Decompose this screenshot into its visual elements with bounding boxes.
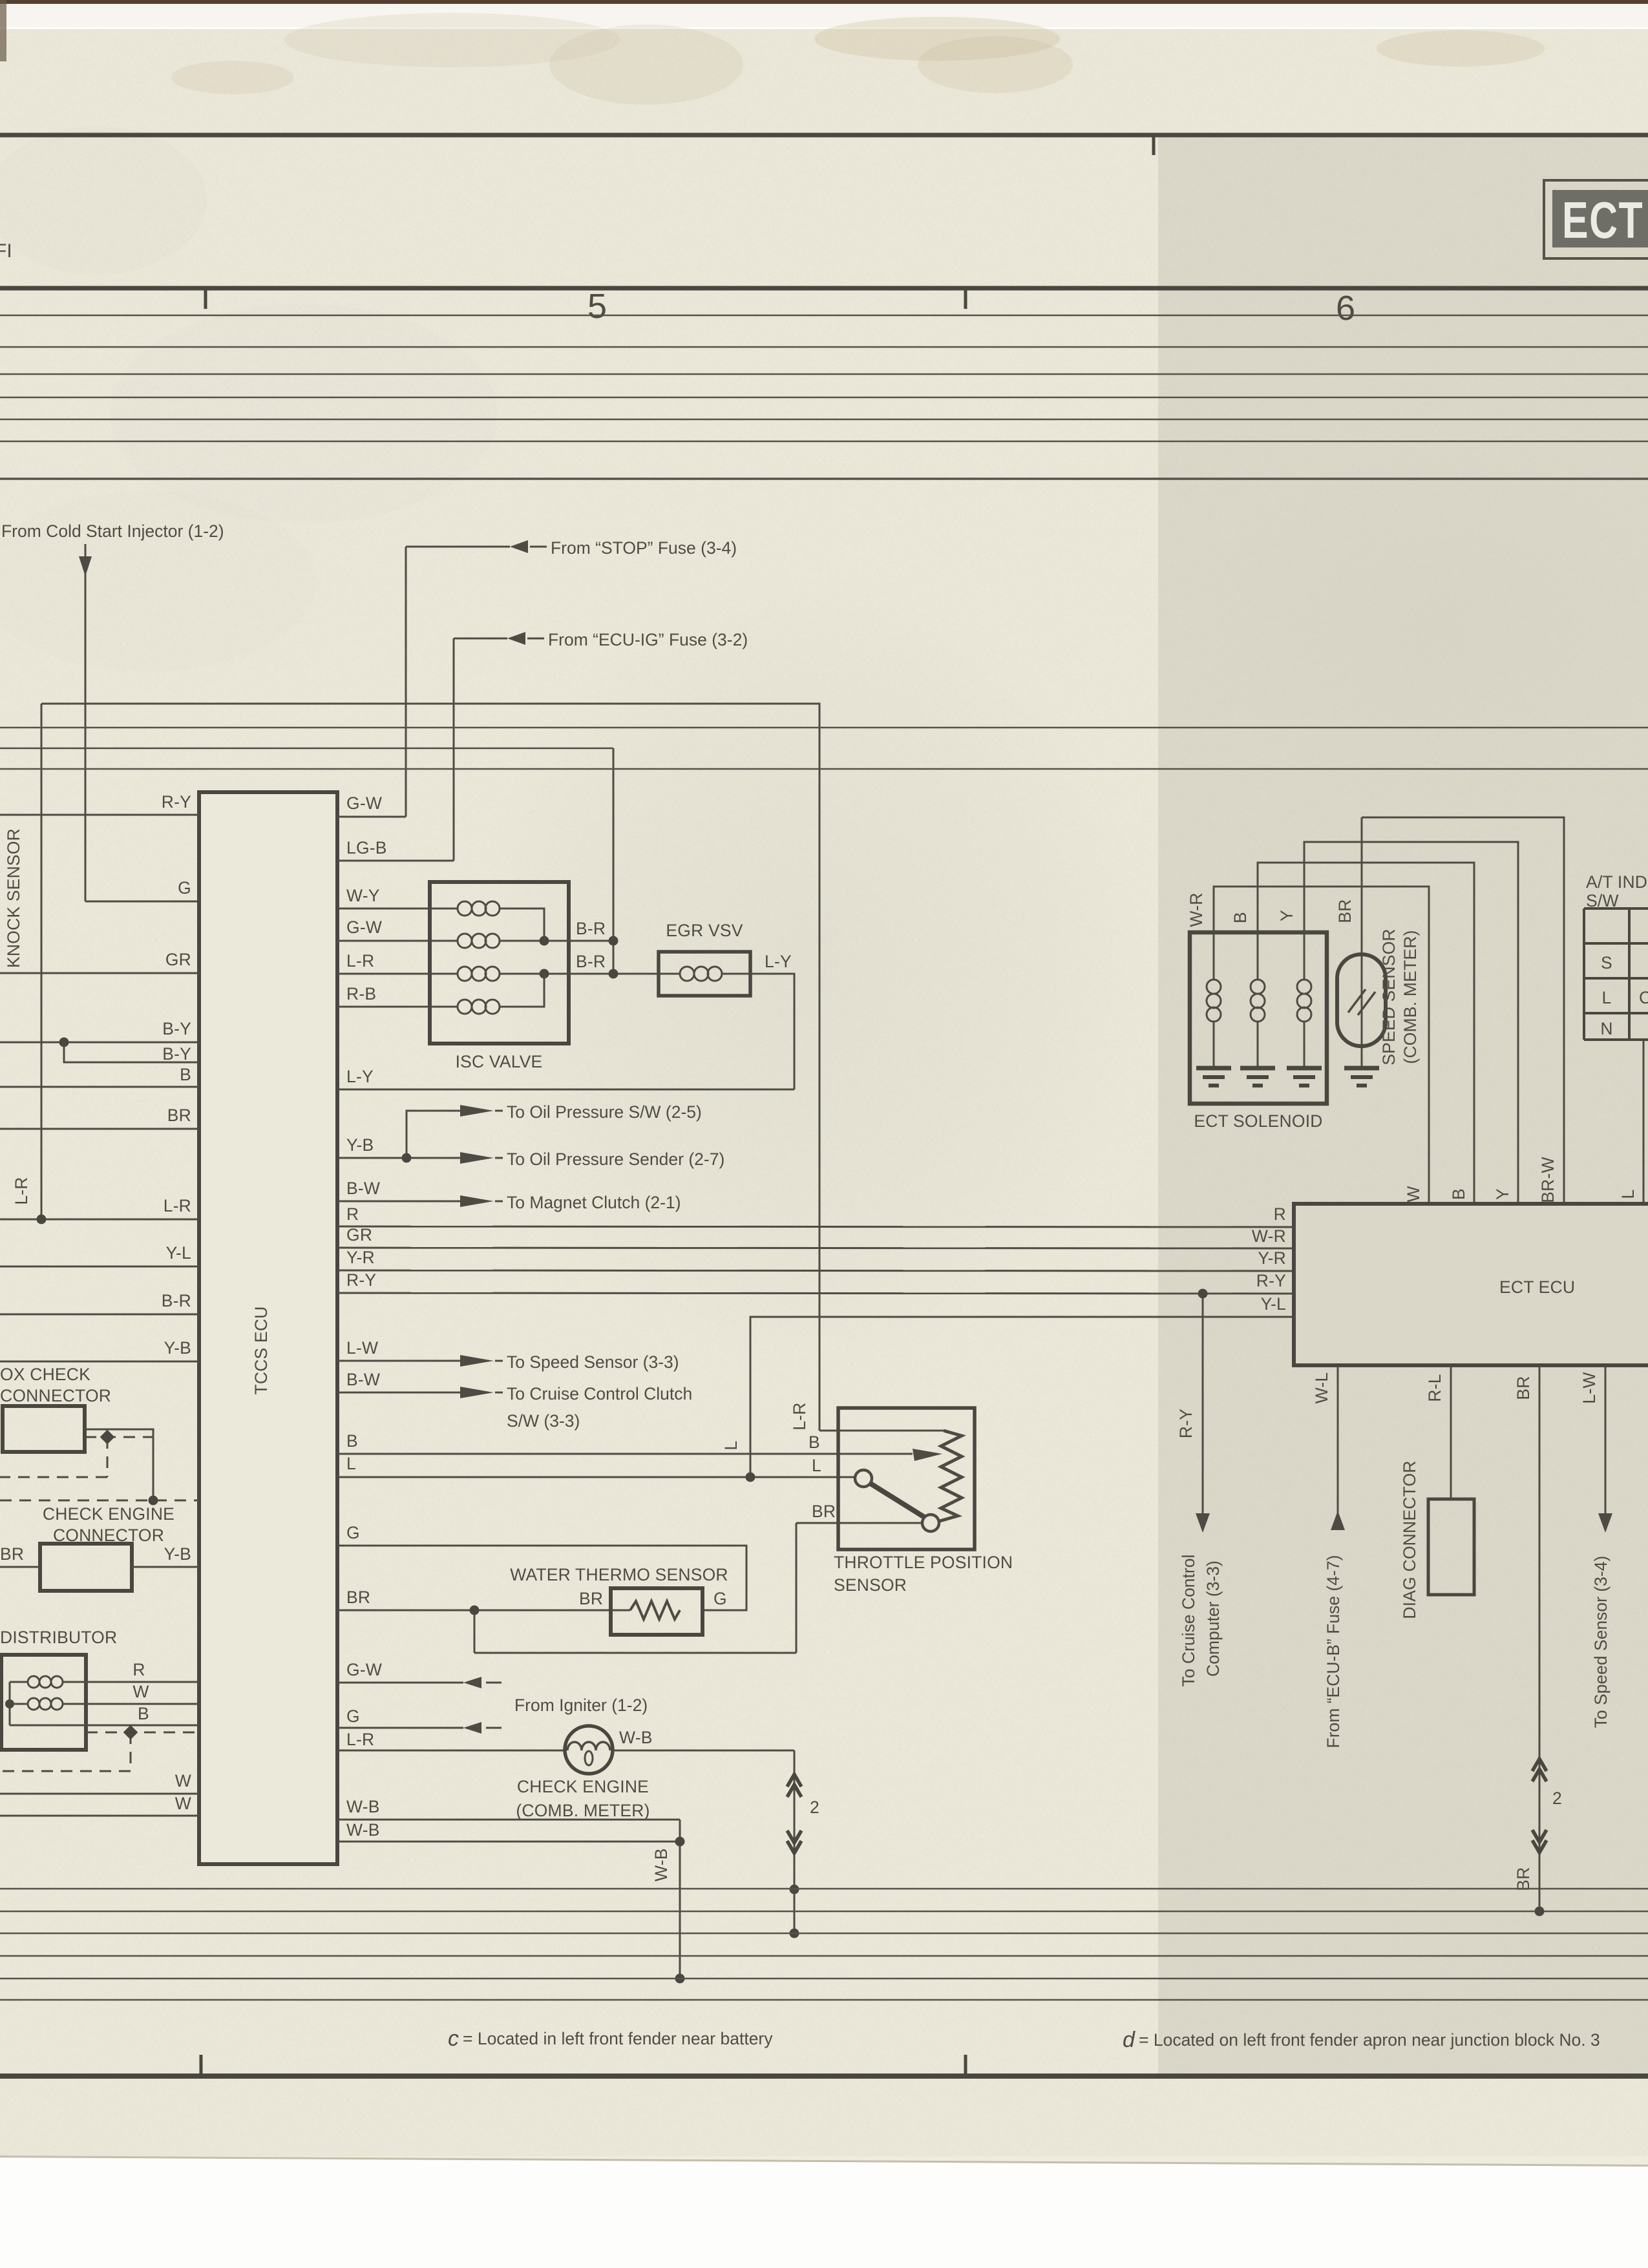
svg-text:C: C — [1639, 988, 1648, 1007]
svg-text:B: B — [808, 1433, 820, 1452]
junction: lamp wire to bus — [790, 1885, 799, 1938]
coil: ISC 1 — [458, 901, 544, 941]
svg-text:W-B: W-B — [619, 1728, 653, 1747]
wire: A/T switch L lead to ECT ECU — [1618, 1040, 1643, 1204]
junction: B-Y tap — [59, 1038, 69, 1047]
svg-text:B-R: B-R — [162, 1291, 191, 1310]
svg-text:TCCS ECU: TCCS ECU — [251, 1306, 271, 1394]
connector: OX CHECK CONNECTOR — [0, 1365, 153, 1500]
label B-R pair — [576, 919, 606, 971]
wire: pin G to water thermo sensor — [337, 1523, 746, 1610]
frame: bottom rule with ticks — [0, 2055, 1648, 2076]
svg-text:ECT: ECT — [1562, 192, 1643, 249]
wire: pin B-W To Cruise Control Clutch S/W (3-3) — [337, 1370, 692, 1431]
svg-text:LG-B: LG-B — [346, 838, 387, 857]
connector: CHECK ENGINE CONNECTOR — [0, 1504, 199, 1591]
svg-text:L-Y: L-Y — [346, 1067, 374, 1086]
wire: pin L-R left — [0, 1177, 199, 1219]
svg-text:L-W: L-W — [346, 1338, 378, 1358]
svg-text:W-L: W-L — [1312, 1372, 1331, 1404]
wire: bus Y-L to ECT ECU — [721, 1294, 1294, 1477]
svg-text:B-Y: B-Y — [162, 1019, 191, 1038]
wire: pin B-W To Magnet Clutch (2-1) — [337, 1179, 681, 1212]
lamp: CHECK ENGINE (COMB. METER) — [516, 1726, 652, 1820]
wire: pin Y-B To Oil Pressure Sender (2-7) — [337, 1135, 724, 1169]
svg-text:FI: FI — [0, 240, 12, 262]
component: SPEED SENSOR (COMB. METER) — [1335, 817, 1564, 1204]
svg-text:B-Y: B-Y — [162, 1044, 191, 1064]
frame: column rule with ticks — [0, 287, 1648, 328]
svg-text:Y-L: Y-L — [1261, 1294, 1286, 1314]
svg-text:BR: BR — [1514, 1867, 1533, 1891]
wire: pin W 1 left — [0, 1771, 199, 1794]
svg-text:B: B — [1231, 912, 1250, 923]
svg-text:L: L — [1602, 988, 1612, 1007]
ground: solenoid 2 — [1240, 1068, 1275, 1086]
svg-text:Y-R: Y-R — [1258, 1248, 1286, 1268]
coil: distributor pickup 2 — [10, 1698, 199, 1710]
svg-text:SPEED SENSOR: SPEED SENSOR — [1379, 929, 1399, 1066]
svg-text:L: L — [721, 1441, 741, 1451]
svg-text:CONNECTOR: CONNECTOR — [0, 1386, 111, 1405]
caption d — [1123, 2028, 1600, 2052]
svg-text:L-R: L-R — [12, 1177, 31, 1204]
component: ISC VALVE box — [430, 882, 569, 1071]
svg-text:W-B: W-B — [651, 1848, 671, 1882]
wire: branch To Oil Pressure S/W (2-5) — [407, 1102, 702, 1158]
wire: pin L-R to ISC coil 3 — [337, 951, 458, 974]
node: From "STOP" Fuse (3-4) feed — [406, 538, 737, 817]
switch: throttle idle contact — [855, 1470, 939, 1531]
wire: bus GR / W-R to ECT ECU — [337, 1225, 1294, 1248]
svg-text:= Located in left front fender: = Located in left front fender near batt… — [463, 2029, 773, 2048]
pin labels R W B distributor — [132, 1660, 149, 1723]
caption c — [448, 2026, 773, 2051]
junction: L-R / loop bus — [37, 1215, 47, 1224]
node: From Cold Start Injector (1-2) feed — [1, 521, 224, 901]
component: THROTTLE POSITION SENSOR — [790, 1402, 1013, 1595]
svg-text:B-R: B-R — [576, 919, 606, 938]
wire: pin L-W To Speed Sensor (3-3) — [337, 1338, 679, 1372]
wire: long bus line 4 — [0, 768, 1648, 770]
svg-text:BR: BR — [167, 1106, 191, 1125]
junction: ISC coils 3+4 — [540, 969, 618, 979]
svg-text:R: R — [1274, 1204, 1286, 1224]
coil: EGR VSV winding — [680, 967, 750, 981]
wire: pin G from igniter — [337, 1696, 648, 1734]
svg-text:ISC VALVE: ISC VALVE — [456, 1052, 543, 1071]
wire: bottom horizontal bus group — [0, 1889, 1648, 2000]
wire: pin W-B 1 — [337, 1797, 680, 1820]
switch: A/T IND S/W table — [1584, 872, 1648, 1040]
frame: FI margin text — [0, 240, 12, 262]
svg-text:Y-R: Y-R — [346, 1248, 375, 1267]
svg-text:W-B: W-B — [346, 1820, 380, 1840]
svg-text:EGR VSV: EGR VSV — [666, 921, 743, 940]
wire: pin BR to water thermo sensor — [337, 1588, 630, 1615]
wire: pin B-Y 1 left — [0, 1019, 199, 1042]
wire: pin L to throttle idle contact — [337, 1454, 854, 1482]
wire: pin W-Y to ISC coil 1 — [337, 886, 458, 908]
wire: pin R-Y left — [0, 792, 199, 815]
svg-text:B: B — [1449, 1188, 1468, 1200]
svg-text:R-L: R-L — [1425, 1374, 1444, 1402]
wire: distributor common leg — [5, 1682, 199, 1725]
wire: pin G-W to ISC coil 2 — [337, 918, 458, 941]
wire: bus line 3 to ISC B-R drop — [0, 748, 613, 974]
svg-text:From “STOP” Fuse (3-4): From “STOP” Fuse (3-4) — [551, 538, 737, 558]
wire: distributor shield dashed — [0, 1725, 199, 1771]
svg-text:R-Y: R-Y — [346, 1270, 376, 1290]
svg-text:W: W — [132, 1682, 149, 1701]
svg-text:S/W (3-3): S/W (3-3) — [507, 1411, 580, 1431]
svg-text:WATER THERMO SENSOR: WATER THERMO SENSOR — [510, 1565, 728, 1584]
wire: pin B to throttle wiper — [337, 1431, 942, 1461]
svg-text:2: 2 — [1552, 1789, 1562, 1808]
svg-text:To Speed Sensor (3-3): To Speed Sensor (3-3) — [507, 1352, 679, 1372]
coil: ISC 3 feeds EGR VSV — [458, 967, 680, 981]
component: EGR VSV — [659, 921, 750, 996]
coil: ISC 2 — [458, 934, 613, 948]
svg-text:c: c — [448, 2026, 459, 2051]
svg-text:N: N — [1600, 1019, 1612, 1038]
svg-text:R: R — [132, 1660, 145, 1679]
coil: ECT solenoid 3 Y — [1277, 842, 1518, 1204]
wire: pin W 2 left — [0, 1794, 199, 1816]
wire: pin B-Y 2 left — [64, 1042, 199, 1064]
wire: pin L-R to check engine lamp — [337, 1730, 565, 1750]
svg-text:SENSOR: SENSOR — [834, 1575, 907, 1595]
wire: pin G-W to STOP fuse — [337, 793, 406, 817]
wire: L-R into pot top — [819, 1430, 944, 1432]
knock sensor label — [4, 828, 23, 968]
frame: top rule — [0, 135, 1648, 155]
svg-text:W: W — [175, 1771, 191, 1790]
wire: W-B drop to bottom bus — [675, 1820, 685, 1984]
component: ECT SOLENOID box — [1190, 932, 1327, 1131]
svg-text:L-R: L-R — [164, 1196, 191, 1215]
svg-text:CHECK ENGINE: CHECK ENGINE — [43, 1504, 174, 1524]
svg-text:From Igniter (1-2): From Igniter (1-2) — [514, 1696, 648, 1715]
wire: pin BR left — [0, 1106, 199, 1129]
svg-text:R-Y: R-Y — [1176, 1409, 1196, 1438]
component: WATER THERMO SENSOR — [510, 1565, 728, 1635]
wire: lamp W-B drop with inline connector 2 — [613, 1750, 819, 1933]
svg-text:BR: BR — [0, 1544, 24, 1564]
svg-text:From “ECU-IG” Fuse (3-2): From “ECU-IG” Fuse (3-2) — [548, 630, 748, 649]
wire: long bus line 2 — [0, 727, 1648, 729]
svg-text:To Oil Pressure Sender (2-7): To Oil Pressure Sender (2-7) — [507, 1150, 724, 1169]
svg-text:CHECK ENGINE: CHECK ENGINE — [517, 1777, 649, 1796]
component: DISTRIBUTOR — [0, 1628, 117, 1750]
svg-text:BR: BR — [1335, 899, 1355, 923]
svg-text:A/T IND: A/T IND — [1586, 872, 1647, 892]
svg-text:Y: Y — [1493, 1188, 1512, 1200]
svg-text:W-B: W-B — [346, 1797, 380, 1816]
wire: pin B-R left — [0, 1291, 199, 1314]
resistor: throttle potentiometer — [940, 1431, 962, 1521]
svg-text:To Cruise Control: To Cruise Control — [1179, 1555, 1198, 1687]
svg-text:5: 5 — [587, 287, 607, 326]
svg-text:From “ECU-B” Fuse (4-7): From “ECU-B” Fuse (4-7) — [1324, 1555, 1343, 1748]
svg-text:THROTTLE POSITION: THROTTLE POSITION — [834, 1553, 1013, 1572]
ground: solenoid 3 — [1287, 1068, 1322, 1086]
wire: pin GR left — [0, 950, 199, 973]
resistor: water thermo element — [630, 1601, 680, 1619]
wire: bus Y-R to ECT ECU — [337, 1248, 1294, 1271]
svg-text:L-W: L-W — [1579, 1372, 1599, 1403]
wire: pin B left — [0, 1065, 199, 1087]
svg-text:W-R: W-R — [1252, 1226, 1286, 1246]
junction: ISC coils 1+2 — [540, 936, 618, 946]
wire: R-Y drop To Cruise Control Computer (3-3) — [1176, 1289, 1223, 1687]
wire: pin L-Y — [337, 1067, 794, 1089]
svg-text:B-R: B-R — [576, 952, 606, 971]
svg-text:B: B — [180, 1065, 191, 1084]
svg-text:= Located on left front fender: = Located on left front fender apron nea… — [1139, 2030, 1600, 2050]
svg-text:To Magnet Clutch (2-1): To Magnet Clutch (2-1) — [507, 1193, 681, 1212]
svg-text:KNOCK SENSOR: KNOCK SENSOR — [4, 828, 23, 968]
wire: L-R loop bus to throttle sensor — [41, 704, 819, 1431]
wire: EGR VSV L-Y drop — [750, 952, 794, 1089]
coil: ECT solenoid 2 B — [1231, 863, 1474, 1204]
connector: DIAG CONNECTOR — [1400, 1365, 1474, 1619]
svg-text:d: d — [1123, 2028, 1136, 2052]
svg-text:Y-B: Y-B — [346, 1135, 374, 1155]
ground: speed sensor — [1344, 1068, 1379, 1086]
svg-text:Y-B: Y-B — [164, 1544, 191, 1564]
svg-text:BR: BR — [1514, 1376, 1533, 1400]
wire: pin LG-B to ECU-IG fuse — [337, 838, 454, 861]
svg-text:Y: Y — [1277, 910, 1296, 921]
svg-text:6: 6 — [1336, 289, 1355, 328]
svg-text:B-W: B-W — [346, 1370, 380, 1389]
wire: dashed link to TCCS ECU — [0, 1496, 199, 1506]
svg-text:W-R: W-R — [1187, 892, 1206, 927]
ground: solenoid 1 — [1196, 1068, 1231, 1086]
svg-text:G-W: G-W — [346, 918, 382, 937]
wire: top horizontal bus group — [0, 315, 1648, 479]
svg-text:B: B — [138, 1704, 149, 1723]
svg-text:(COMB. METER): (COMB. METER) — [1400, 930, 1420, 1064]
wire: pin G-W from igniter side — [337, 1660, 502, 1688]
TCCS ECU U1 — [199, 792, 337, 1864]
svg-text:BR: BR — [346, 1588, 370, 1607]
svg-text:To Cruise Control Clutch: To Cruise Control Clutch — [507, 1384, 692, 1403]
svg-text:G-W: G-W — [346, 1660, 382, 1679]
wire: pin BR to throttle via thermo loop — [474, 1502, 922, 1653]
wire: pin Y-L left — [0, 1243, 199, 1266]
svg-text:ECT SOLENOID: ECT SOLENOID — [1194, 1111, 1322, 1131]
svg-text:W: W — [175, 1794, 191, 1813]
svg-text:L-R: L-R — [790, 1402, 809, 1430]
svg-text:R: R — [346, 1204, 359, 1224]
wire: pin Y-B left — [0, 1338, 199, 1361]
svg-text:R-Y: R-Y — [1256, 1271, 1286, 1290]
svg-text:G: G — [346, 1706, 360, 1726]
svg-text:R-B: R-B — [346, 984, 376, 1003]
svg-text:DIAG CONNECTOR: DIAG CONNECTOR — [1400, 1460, 1419, 1619]
svg-text:L: L — [1618, 1190, 1638, 1199]
wire: bus R to ECT ECU — [337, 1204, 1294, 1227]
svg-text:Y-L: Y-L — [166, 1243, 191, 1263]
wire: pin R-B to ISC coil 4 — [337, 984, 458, 1007]
wire: bus R-Y to ECT ECU — [337, 1270, 1294, 1294]
svg-text:R-Y: R-Y — [162, 792, 191, 812]
svg-text:S: S — [1601, 953, 1612, 972]
svg-text:L-Y: L-Y — [765, 952, 792, 971]
svg-text:B: B — [346, 1431, 358, 1451]
svg-text:DISTRIBUTOR: DISTRIBUTOR — [0, 1628, 117, 1647]
svg-text:From Cold Start Injector (1-2): From Cold Start Injector (1-2) — [1, 521, 224, 541]
svg-text:GR: GR — [346, 1225, 372, 1244]
svg-text:L-R: L-R — [346, 951, 374, 971]
svg-text:OX CHECK: OX CHECK — [0, 1365, 90, 1384]
title block ECT — [1544, 180, 1648, 258]
coil: ECT solenoid 1 W-R — [1187, 887, 1429, 1204]
svg-text:G: G — [178, 878, 191, 898]
node: From "ECU-IG" Fuse (3-2) feed — [454, 630, 748, 861]
wire: ECT ECU BR to ground bus with connector 2 — [1514, 1365, 1562, 1916]
svg-text:G: G — [346, 1523, 360, 1542]
wire: pin G left from injector — [178, 878, 191, 898]
svg-text:L-R: L-R — [346, 1730, 374, 1749]
svg-text:(COMB. METER): (COMB. METER) — [516, 1801, 650, 1820]
svg-text:To Speed Sensor (3-4): To Speed Sensor (3-4) — [1591, 1556, 1611, 1728]
svg-text:W-Y: W-Y — [346, 886, 380, 905]
ECT ECU U2 — [1294, 1204, 1648, 1365]
svg-text:G-W: G-W — [346, 793, 382, 813]
coil: ISC 4 — [458, 974, 544, 1014]
svg-text:G: G — [713, 1589, 727, 1608]
svg-text:Y-B: Y-B — [164, 1338, 191, 1358]
svg-text:B-W: B-W — [346, 1179, 380, 1198]
svg-text:BR-W: BR-W — [1538, 1157, 1558, 1202]
svg-text:W: W — [1404, 1186, 1423, 1202]
wire: W-L From "ECU-B" Fuse (4-7) — [1312, 1365, 1345, 1748]
wire: pin W-B 2 — [337, 1820, 680, 1842]
svg-text:Computer (3-3): Computer (3-3) — [1203, 1560, 1223, 1677]
coil: distributor pickup 1 — [10, 1676, 199, 1688]
pin labels on ECT ECU top — [1404, 1157, 1558, 1202]
svg-text:2: 2 — [810, 1798, 819, 1817]
svg-text:L: L — [812, 1456, 821, 1475]
svg-text:L: L — [346, 1454, 356, 1473]
svg-text:ECT ECU: ECT ECU — [1499, 1277, 1575, 1297]
svg-text:To Oil Pressure S/W (2-5): To Oil Pressure S/W (2-5) — [507, 1102, 702, 1122]
wire: L-W To Speed Sensor (3-4) — [1579, 1365, 1612, 1728]
svg-text:BR: BR — [579, 1589, 603, 1608]
svg-text:BR: BR — [812, 1502, 836, 1521]
svg-text:GR: GR — [165, 950, 191, 969]
